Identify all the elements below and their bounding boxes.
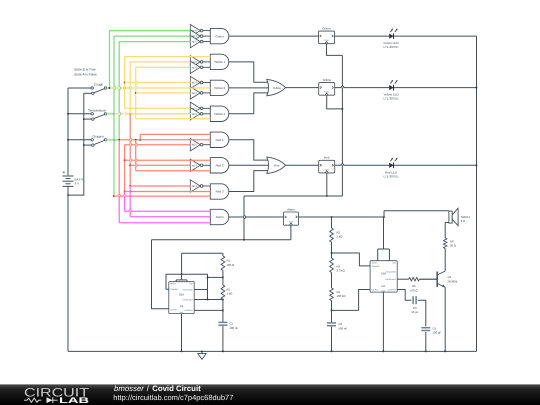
switch SW1 Cough <box>84 83 107 95</box>
wire speaker to R6 <box>445 223 449 271</box>
footer url <box>113 393 233 402</box>
svg-text:Red 3: Red 3 <box>216 190 224 194</box>
inverter green bottom <box>190 35 210 47</box>
resistor R2 1 kOhm (U1) <box>221 285 232 299</box>
svg-text:NOT: NOT <box>192 92 198 95</box>
wire hops <box>114 81 344 219</box>
AND gate Green <box>210 28 229 43</box>
svg-text:Oxygen: Oxygen <box>93 135 104 139</box>
svg-text:LTL-307EE: LTL-307EE <box>384 174 399 178</box>
wire alarm R divider column <box>331 217 333 352</box>
svg-text:Cough: Cough <box>94 83 104 87</box>
wire Green flip-flop output to rail via LED <box>335 35 477 37</box>
wire left power rail (battery + to switches) <box>67 88 69 175</box>
wire U1 VDD top feed <box>182 252 223 254</box>
inverter yellow1 mid <box>190 56 210 68</box>
speaker SPKR1 8 Ohm <box>449 208 471 225</box>
footer title <box>114 384 201 393</box>
svg-text:1 kΩ: 1 kΩ <box>337 235 343 239</box>
svg-text:DISCHARGE: DISCHARGE <box>386 271 397 274</box>
red-green junction riser <box>118 140 120 196</box>
wire Yellow3 AND output jog to OR <box>229 93 269 114</box>
svg-text:2N3904: 2N3904 <box>448 279 458 283</box>
svg-text:Yellow 2: Yellow 2 <box>214 86 225 90</box>
AND gate Yellow 2 <box>210 80 229 95</box>
wire U1 threshold <box>194 299 223 301</box>
svg-text:NOT: NOT <box>192 66 198 69</box>
wire U1 control <box>194 309 223 311</box>
wire state-A rail (switch lower throws) <box>67 93 84 196</box>
svg-text:NOT: NOT <box>192 113 198 116</box>
svg-text:Yellow 1: Yellow 1 <box>214 60 225 64</box>
red riser b <box>129 114 131 187</box>
wire U2 VDD/RESET tie loop <box>378 217 390 261</box>
svg-text:555: 555 <box>179 293 184 297</box>
svg-text:Covid Circuit: Covid Circuit <box>152 384 201 393</box>
wire U1 trigger-discharge loop <box>166 274 208 299</box>
svg-text:10 µF: 10 µF <box>411 310 418 314</box>
svg-text:RESET: RESET <box>372 262 378 265</box>
svg-text:TRIGGER: TRIGGER <box>170 288 178 291</box>
wire U2 threshold to R5 <box>397 278 437 280</box>
svg-text:NOT: NOT <box>192 185 198 188</box>
svg-text:Red 2: Red 2 <box>216 164 224 168</box>
temperature source row <box>106 113 191 115</box>
wire clock horizontal y239.8 <box>152 239 291 241</box>
resistor R3 3.3 kOhm <box>330 258 345 273</box>
wire Q1 emitter to ground rail <box>444 287 446 352</box>
inverter green top <box>190 24 210 36</box>
green row 2 <box>114 35 190 37</box>
resistor R4 100 kOhm <box>330 288 346 301</box>
OR gate Red <box>267 157 286 173</box>
svg-text:OUTPUT: OUTPUT <box>170 308 177 311</box>
op-amp U1 555 timer <box>169 282 194 314</box>
wire battery negative to ground rail <box>67 187 69 352</box>
capacitor C1 100 nF <box>218 322 238 330</box>
svg-text:100 Ω: 100 Ω <box>227 263 235 267</box>
inverter red2 mid <box>190 159 210 171</box>
svg-text:100 kΩ: 100 kΩ <box>337 294 346 298</box>
wire Red3 AND output jog to OR <box>229 171 269 192</box>
AND gate Alarm <box>210 209 229 224</box>
switch SW2 Temperature <box>84 109 107 121</box>
svg-text:State A is False: State A is False <box>74 72 97 76</box>
yellow row y3 bottom <box>136 118 211 120</box>
wire U2 output to trigger node <box>332 290 371 311</box>
svg-text:Red: Red <box>324 156 330 160</box>
footer bar <box>0 384 540 405</box>
magenta riser b <box>124 192 126 212</box>
logo CIRCUIT <box>24 385 90 399</box>
svg-text:100 µF: 100 µF <box>433 331 442 335</box>
wire Red2 AND output to OR <box>229 164 269 166</box>
wire Alarm flip-flop clock <box>290 225 292 240</box>
wire Yellow1 AND output jog to OR <box>229 62 269 82</box>
green riser cough <box>109 31 111 88</box>
svg-text:Temperature: Temperature <box>88 109 106 113</box>
wire Red flip-flop clock <box>326 174 328 197</box>
wire clock vertical x244 <box>243 196 245 240</box>
yellow riser cough <box>124 57 126 109</box>
svg-text:TRIGGER: TRIGGER <box>372 265 380 268</box>
wire speaker top feed <box>384 211 449 217</box>
svg-text:RESET: RESET <box>170 283 176 286</box>
yellow row y1 top <box>125 56 211 58</box>
AND gate Yellow 1 <box>210 54 229 69</box>
yellow row y1 mid <box>130 61 190 63</box>
wire U1 ground pin <box>181 314 183 353</box>
capacitor C2 500 nF <box>327 322 347 330</box>
wire green AND output to Green flip-flop <box>229 35 319 37</box>
svg-text:http://circuitlab.com/c7p4pc68: http://circuitlab.com/c7p4pc68dub77 <box>113 393 233 402</box>
wire U1 VDD/RESET tie loop <box>176 253 187 282</box>
wire temperature switch feed <box>67 113 91 115</box>
inverter green mid <box>190 30 210 42</box>
svg-text:NOT: NOT <box>192 41 198 44</box>
svg-text:NOT: NOT <box>192 164 198 167</box>
svg-text:THRESHOLD: THRESHOLD <box>385 278 396 281</box>
svg-text:Alarm: Alarm <box>216 215 224 219</box>
svg-text:CONTROL: CONTROL <box>388 288 396 291</box>
red row r3 mid <box>125 191 211 193</box>
flip-flop Green <box>319 27 335 44</box>
wire clock distribution rail <box>341 55 343 196</box>
svg-text:LTL-307EE: LTL-307EE <box>384 97 399 101</box>
yellow row y3 mid <box>130 113 190 115</box>
OR gate Yellow <box>267 79 286 95</box>
svg-text:Red 1: Red 1 <box>216 138 224 142</box>
wire yellow OR output to Yellow flip-flop <box>286 87 319 89</box>
wire Red1 AND output jog to OR <box>229 140 269 160</box>
red row r3 bottom <box>114 195 210 197</box>
oxygen source row <box>106 139 211 141</box>
logo diode symbol <box>47 397 58 403</box>
capacitor C3 10 uF <box>411 296 418 314</box>
wire right cathode rail <box>476 36 478 351</box>
resistor R2 1 kOhm (alarm) <box>330 228 343 242</box>
svg-text:Yellow: Yellow <box>273 86 282 90</box>
flip-flop Red <box>319 156 335 173</box>
ground symbol <box>198 351 206 360</box>
logo resistor squiggle <box>24 398 41 402</box>
svg-text:Red: Red <box>274 164 280 168</box>
red row r1 top <box>140 133 210 135</box>
red row r2 bottom <box>136 170 211 172</box>
capacitor C4 100 uF <box>421 326 441 334</box>
svg-text:1 kΩ: 1 kΩ <box>227 292 233 296</box>
LED D1 Green LED <box>383 29 399 49</box>
inverter red1 bottom <box>190 139 210 151</box>
svg-text:NOT: NOT <box>192 144 198 147</box>
logo LAB <box>59 396 89 405</box>
wire U2 trigger feed <box>332 253 371 266</box>
svg-text:Green: Green <box>215 34 224 38</box>
svg-text:100 nF: 100 nF <box>230 326 239 330</box>
resistor R5 470 Ohm <box>409 277 420 292</box>
svg-text:Yellow: Yellow <box>322 78 331 82</box>
svg-text:Yellow 3: Yellow 3 <box>214 112 225 116</box>
LED D3 Red LED <box>384 158 399 178</box>
AND gate Red 2 <box>210 158 229 173</box>
yellow riser temperature <box>129 62 131 114</box>
svg-text:Alarm: Alarm <box>287 207 295 211</box>
inverter yellow3 top <box>190 102 210 114</box>
svg-text:8 Ω: 8 Ω <box>461 219 465 223</box>
svg-text:9 V: 9 V <box>75 182 80 186</box>
flip-flop Yellow <box>319 78 335 95</box>
yellow row y2 bottom <box>136 92 191 94</box>
switch SW3 Oxygen <box>84 135 107 147</box>
yellow riser oxygen <box>135 67 137 118</box>
red row r2 top <box>125 159 211 161</box>
wire U2 ground pin <box>383 292 385 352</box>
battery BATT1 9 V <box>63 171 84 186</box>
svg-text:DISCHARGE: DISCHARGE <box>183 288 194 291</box>
svg-text:State B is True: State B is True <box>74 68 96 72</box>
magenta row alarm mid <box>130 216 210 218</box>
wire U1 discharge to R divider <box>207 277 223 279</box>
magenta riser a <box>118 196 120 223</box>
note state labels <box>74 68 97 77</box>
wire Yellow2 AND output to OR <box>229 87 269 89</box>
svg-text:bmosser: bmosser <box>114 384 144 393</box>
AND gate Yellow 3 <box>210 106 229 121</box>
svg-text:CONTROL: CONTROL <box>185 309 193 312</box>
red row r3 top <box>130 185 190 187</box>
svg-text:LTL-307EE: LTL-307EE <box>384 45 399 49</box>
inverter yellow3 mid <box>190 108 210 120</box>
magenta row alarm top <box>125 210 211 212</box>
op-amp U2 555 timer <box>370 261 397 293</box>
magenta row alarm bottom <box>119 222 210 224</box>
wire clock horizontal y196 <box>244 195 342 197</box>
resistor R6 39 Ohm <box>443 238 456 249</box>
yellow row y3 top <box>125 107 191 109</box>
inverter yellow2 top <box>190 76 210 88</box>
magenta riser c <box>129 186 131 217</box>
wire Alarm AND output to Alarm flip-flop <box>229 216 284 218</box>
wire Green flip-flop clock <box>327 44 343 56</box>
svg-text:THRESHOLD: THRESHOLD <box>182 298 193 301</box>
resistor R1 100 Ohm <box>221 256 234 270</box>
wire Yellow flip-flop clock <box>327 96 344 110</box>
red riser d <box>139 134 141 139</box>
svg-text:3.3 kΩ: 3.3 kΩ <box>337 269 345 273</box>
LED D2 Yellow LED <box>383 80 399 100</box>
svg-text:LAB: LAB <box>59 396 89 405</box>
transistor Q1 2N3904 <box>419 271 457 287</box>
wire Yellow flip-flop output to rail via LED <box>335 87 478 89</box>
wire bottom ground rail <box>68 350 477 352</box>
svg-text:Green: Green <box>322 27 331 31</box>
svg-text:U1: U1 <box>180 304 184 308</box>
AND gate Red 3 <box>210 184 229 199</box>
green riser oxygen <box>118 42 120 140</box>
wire U2 control to C3 <box>397 290 426 353</box>
green riser temperature <box>113 36 115 197</box>
red row r2 mid <box>130 164 190 166</box>
wire red OR output to Red flip-flop <box>286 164 319 166</box>
svg-text:OUTPUT: OUTPUT <box>372 288 379 291</box>
svg-text:39 Ω: 39 Ω <box>450 244 456 248</box>
svg-text:500 nF: 500 nF <box>339 326 348 330</box>
wire cough switch feed <box>68 87 91 89</box>
svg-text:U2: U2 <box>381 284 385 288</box>
red riser a <box>124 145 126 193</box>
red row r1 bottom <box>125 144 191 146</box>
green row 1 <box>110 30 191 32</box>
AND gate Red 1 <box>210 132 228 147</box>
yellow row y2 top <box>125 82 191 84</box>
wire Alarm flip-flop output node <box>299 216 385 218</box>
wire oxygen switch feed <box>67 139 91 141</box>
green row 3 <box>119 41 190 43</box>
flip-flop Alarm <box>284 207 299 225</box>
svg-text:NOT: NOT <box>192 82 198 85</box>
red riser c <box>135 140 137 171</box>
wire U1 R-C column <box>222 253 224 352</box>
wire U1 output riser <box>152 240 169 309</box>
inverter yellow1 bottom <box>190 61 210 73</box>
yellow row y1 bottom <box>136 66 191 68</box>
cough source row <box>106 87 211 89</box>
inverter yellow2 bottom <box>190 87 210 99</box>
svg-text:470 Ω: 470 Ω <box>410 288 418 292</box>
inverter red3 top <box>190 180 210 192</box>
wire Red flip-flop output to rail via LED <box>335 165 478 167</box>
